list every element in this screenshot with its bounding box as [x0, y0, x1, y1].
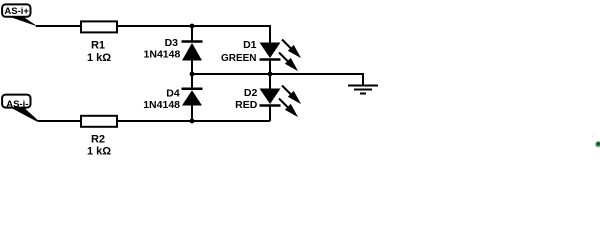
svg-text:AS-i-: AS-i-	[6, 99, 28, 110]
svg-text:D2: D2	[244, 87, 258, 99]
svg-text:R2: R2	[91, 133, 105, 145]
svg-text:D4: D4	[166, 87, 180, 99]
svg-text:AS-i+: AS-i+	[4, 6, 29, 17]
svg-text:1 kΩ: 1 kΩ	[87, 52, 111, 64]
svg-text:D1: D1	[243, 39, 257, 51]
svg-text:D3: D3	[165, 37, 179, 49]
svg-text:R1: R1	[91, 39, 105, 51]
svg-text:1N4148: 1N4148	[144, 48, 181, 60]
svg-text:1N4148: 1N4148	[143, 99, 180, 111]
svg-text:GREEN: GREEN	[221, 53, 257, 64]
svg-text:1 kΩ: 1 kΩ	[87, 145, 111, 155]
svg-text:RED: RED	[235, 99, 258, 111]
